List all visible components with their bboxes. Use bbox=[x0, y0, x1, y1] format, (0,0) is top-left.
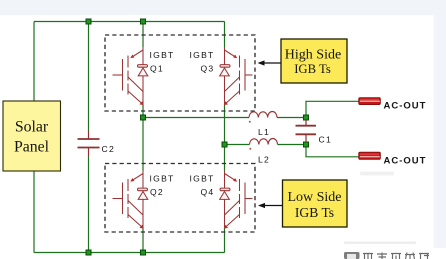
wire: Q2 emitter to bottom bus bbox=[142, 228, 144, 253]
freewheel diode of Q3 bbox=[220, 65, 230, 76]
low side arrow bbox=[258, 203, 282, 208]
faint artifact smudge bbox=[360, 172, 394, 176]
svg-text:Solar: Solar bbox=[15, 119, 49, 136]
junction node phase B bbox=[222, 142, 227, 147]
junction node on top bus at Q1 leg bbox=[141, 19, 146, 24]
wire: Q3 collector drop bbox=[224, 22, 226, 48]
right page tint strip bbox=[434, 0, 446, 248]
svg-text:IGBT: IGBT bbox=[150, 174, 175, 184]
svg-text:High Side: High Side bbox=[285, 47, 341, 62]
wire: top bus bbox=[34, 21, 225, 23]
top page tint strip bbox=[0, 0, 446, 15]
high side dashed enclosure bbox=[105, 35, 255, 111]
transistor Q3 (IGBT) bbox=[220, 47, 253, 105]
capacitor C2 bbox=[78, 131, 100, 157]
svg-text:L2: L2 bbox=[258, 155, 270, 165]
svg-text:Q2: Q2 bbox=[150, 187, 164, 197]
svg-text:AC-OUT: AC-OUT bbox=[384, 155, 427, 166]
wire: C2 branch lower bbox=[88, 157, 90, 253]
svg-text:C1: C1 bbox=[319, 135, 333, 145]
svg-text:IGB Ts: IGB Ts bbox=[295, 205, 334, 220]
junction node C1 bottom bbox=[304, 142, 309, 147]
freewheel diode of Q1 bbox=[138, 65, 148, 76]
svg-text:Panel: Panel bbox=[14, 139, 50, 156]
watermark text glyphs bbox=[363, 253, 429, 259]
watermark smudge bbox=[344, 242, 416, 245]
wire: Q4 emitter to bottom bus bbox=[224, 228, 226, 253]
wire: Q1/Q2 phase leg middle bbox=[142, 105, 144, 171]
junction node bottom bus at C2 branch bbox=[86, 250, 91, 255]
svg-text:IGB Ts: IGB Ts bbox=[294, 62, 331, 76]
wire: C1 top node to upper AC-OUT bbox=[306, 101, 359, 117]
wire: phase A to L1 bbox=[143, 117, 249, 119]
junction node bottom bus at Q2 leg bbox=[141, 250, 146, 255]
low side callout box bbox=[283, 180, 348, 227]
svg-text:IGBT: IGBT bbox=[190, 50, 215, 60]
wire: C2 branch upper bbox=[88, 22, 90, 131]
svg-text:IGBT: IGBT bbox=[150, 50, 175, 60]
wire: left vertical to solar panel bbox=[33, 22, 35, 102]
svg-text:Q1: Q1 bbox=[150, 64, 164, 74]
transistor Q1 (IGBT) bbox=[113, 47, 144, 105]
transistor Q2 (IGBT) bbox=[113, 171, 148, 229]
wire: bottom bus bbox=[34, 252, 225, 254]
wire: L1 to C1 top node bbox=[277, 117, 306, 119]
svg-text:AC-OUT: AC-OUT bbox=[384, 101, 427, 112]
wire: Q1 collector drop bbox=[142, 22, 144, 48]
wire: C1 bottom node to lower AC-OUT bbox=[306, 145, 359, 157]
svg-text:IGBT: IGBT bbox=[190, 174, 215, 184]
junction node on top bus at C2 branch bbox=[86, 19, 91, 24]
svg-text:L1: L1 bbox=[258, 127, 270, 137]
inductor L2 bbox=[250, 139, 278, 145]
solar panel source bbox=[3, 101, 61, 171]
watermark logo icon bbox=[344, 252, 360, 259]
junction node phase A bbox=[141, 115, 146, 120]
upper AC-OUT terminal bbox=[359, 98, 381, 105]
svg-text:C2: C2 bbox=[102, 144, 116, 154]
high side callout box bbox=[281, 39, 347, 83]
low side dashed enclosure bbox=[105, 164, 255, 233]
junction node C1 top bbox=[304, 115, 309, 120]
wire: Q3/Q4 phase leg middle bbox=[224, 105, 226, 171]
capacitor C1 bbox=[296, 120, 317, 142]
wire: left vertical below solar panel bbox=[33, 171, 35, 253]
freewheel diode of Q2 bbox=[138, 188, 148, 199]
inductor L1 bbox=[249, 112, 277, 118]
transistor Q4 (IGBT) bbox=[220, 171, 253, 229]
pin dot L1 bbox=[249, 121, 251, 123]
svg-text:Q3: Q3 bbox=[201, 64, 215, 74]
high side arrow bbox=[258, 60, 281, 65]
svg-text:Low Side: Low Side bbox=[287, 190, 341, 205]
wire: phase B to L2 bbox=[225, 144, 250, 146]
wire: L2 to C1 bottom node bbox=[278, 144, 307, 146]
svg-text:Q4: Q4 bbox=[201, 187, 215, 197]
freewheel diode of Q4 bbox=[220, 188, 230, 199]
lower AC-OUT terminal bbox=[359, 152, 381, 159]
pin dot L2 bbox=[249, 148, 251, 150]
